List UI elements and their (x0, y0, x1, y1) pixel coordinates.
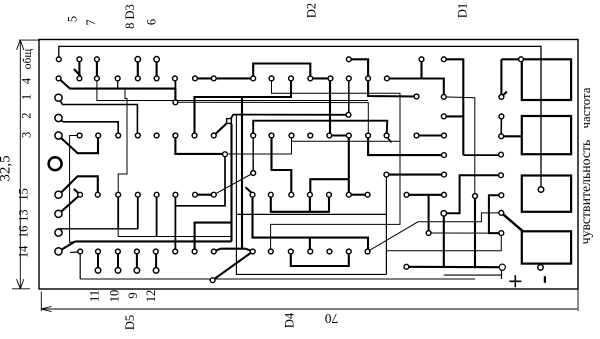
extension line right (577, 289, 579, 311)
wire thin jog line (118, 88, 231, 236)
pad row11 x58.5 (large) (55, 248, 62, 255)
wire net pad(271,78) long thin (271, 78, 400, 251)
wire pad(421.5,59) drop (420, 59, 422, 78)
dimension arrow top (17, 40, 24, 50)
wire plus pad drop (501, 271, 503, 280)
wire link pad(348.8,135)-(348.8,195) (348, 136, 350, 195)
wire pad(137.8,195) down (137, 195, 139, 229)
pad row8 x252.5 (250, 192, 255, 197)
wire kink tick link col79 (74, 69, 81, 76)
svg-text:D2: D2 (305, 3, 319, 18)
pad row11 x367.6 (365, 249, 370, 254)
pad row8 x406.5 (404, 192, 409, 197)
pad row8 x309.9 (308, 192, 313, 197)
extension tick top (19, 39, 40, 41)
wire bottom rail y279 (80, 278, 475, 280)
pad row12 x98 (large) (95, 268, 101, 274)
wire link pad(501,116.4)-(501,136.3) (500, 116, 502, 136)
pad row2 x58.6 (56, 76, 61, 81)
wire net B vertical x242 (241, 97, 243, 249)
dimension arrow left (41, 306, 52, 311)
pad row5 x253.2 (251, 133, 256, 138)
wire thin pad(443.8,97) over to pad(475,196) (444, 97, 475, 195)
pad row8 x175.4 (173, 192, 178, 197)
wire link col330 rows2-5 (329, 78, 331, 135)
wire bar row5 416-444 (417, 134, 445, 136)
pad row1 x96.9 (95, 57, 100, 62)
wire diag pad(58.5,214) to pad(80,194.7) (59, 195, 80, 214)
wire pad(225,154) down-left jog (175, 154, 225, 206)
wire pad(348.8,59) to pad(416.5,96) (349, 59, 417, 96)
wire link col137.8 rows1-2 (137, 59, 139, 78)
pad row5 x416.5 (414, 133, 419, 138)
wire link col79 rows1-2 (78, 59, 80, 78)
wire diag pad(58,195) up (59, 176, 98, 195)
pad row11 x213.8 (211, 249, 216, 254)
pad row5 x118.2 (116, 133, 121, 138)
dimension line 70 horizontal (42, 308, 578, 310)
wire pad(501,175) to pad(444,213) (444, 175, 501, 213)
wire link col96.9 rows1-2 (96, 59, 98, 78)
pad row2 x195 (193, 76, 198, 81)
wire net B bottom (221, 248, 246, 250)
svg-text:15: 15 (16, 188, 30, 201)
pad row5 x58.5 (55, 132, 62, 139)
wire pad(501,195) to pad(501,233) (489, 195, 501, 233)
wire link bottom col98 (97, 252, 99, 271)
pad row10 x58.5 (large) (55, 229, 62, 236)
wire thin pad(291,135) right (292, 136, 401, 142)
wire pad(175.4,135) to pad(225,154) (175, 136, 225, 154)
svg-text:3: 3 (20, 132, 34, 138)
svg-text:7: 7 (84, 19, 98, 25)
wire pad(58,78) to pad(175,102) (59, 78, 176, 101)
pad row11 x348.8 (346, 249, 351, 254)
svg-text:32,5: 32,5 (0, 155, 14, 181)
pad row2 x137.8 (135, 76, 140, 81)
wire pad(386,174) down long (385, 175, 387, 275)
pad row4 x348.8 (346, 112, 351, 117)
pad row7 x501 (499, 173, 504, 178)
pad row2 x156.6 (154, 76, 159, 81)
wire U pad(270.8)-(329) via y211.8 (271, 195, 329, 212)
svg-text:13: 13 (16, 209, 30, 222)
wire link pad(80,251) to pad58 (70, 251, 80, 254)
svg-text:14: 14 (16, 245, 30, 258)
wire y237.6 ext to pad(367.6,251.5) (310, 238, 368, 252)
svg-text:6: 6 (144, 19, 158, 25)
wire net A vertical (230, 124, 232, 242)
pad row12 x136.9 (large) (134, 268, 140, 274)
wire thin y214 long (236, 213, 386, 215)
pad row5 x444 (442, 133, 447, 138)
pad row8 x80.1 (78, 192, 83, 197)
wire thin pad(501,233) down-left (386, 233, 501, 251)
svg-text:70: 70 (325, 311, 339, 326)
wire bar row2 310-330 (310, 77, 330, 79)
pad row8 x501.3 (499, 193, 504, 198)
pad row5 x213.8 (211, 133, 216, 138)
pad row12 x118 (large) (115, 268, 121, 274)
pad row11 x329.5 (327, 249, 332, 254)
pad row8 x137.8 (135, 192, 140, 197)
wire pad(118,195) down (117, 195, 119, 229)
wire net A diag to pad(58,251) (59, 241, 75, 251)
pad row11 x290.8 (288, 249, 293, 254)
pad row9 x443.8 (441, 211, 447, 217)
pad row2 x253.2 (251, 76, 256, 81)
pad row6 x444 (442, 153, 447, 158)
wire thinB pad(96.9,78.4) long right (97, 78, 368, 100)
wire thin diag pad(253,173) to pad(213,195) (214, 173, 253, 195)
pad row3 x175.4 (173, 100, 178, 105)
wire pad(368,135) to pad(444,155) (368, 136, 444, 156)
pad row3 x443.8 (441, 95, 446, 100)
wire bar pad(443.8,116) to x463 (444, 115, 464, 117)
pad row4 x58.5 (large) (55, 114, 62, 121)
wire pad(252.3,196) to pad(310,251) (253, 195, 310, 252)
pad row5 x194.5 (192, 133, 197, 138)
pad row7 x253.2 (251, 171, 256, 176)
pad minus terminal on R4 (538, 265, 544, 271)
wire P-shape 253-310 (253, 64, 310, 79)
wire thick pad(291,78) to pad(194,135) (195, 78, 292, 135)
svg-text:4: 4 (20, 77, 34, 84)
pad row2 x310.3 (308, 76, 313, 81)
pad row2 x330.5 (328, 76, 333, 81)
wire pad(501,59) to pad(521,59) (501, 58, 521, 60)
wire diag tick pad(80,194.7) (74, 189, 80, 195)
svg-text:D4: D4 (283, 312, 297, 328)
wire drop to pad(428.6,233) (428, 195, 430, 232)
wire bar row5 331-348 (331, 134, 349, 136)
pad row8 x329 (327, 192, 332, 197)
svg-text:16: 16 (16, 226, 30, 239)
pad row2 x96.9 (95, 76, 100, 81)
pad row2 x386.9 (385, 76, 390, 81)
wire tick pad(386,135) (387, 137, 392, 143)
pad row2 x291 (289, 76, 294, 81)
pad row5 x368.1 (366, 133, 371, 138)
wire pad(156.6,194.7) drop (156, 195, 158, 237)
wire link bottom col136.9 (136, 252, 138, 271)
wire squarepad to pad(348.5,114.8) (231, 115, 349, 119)
pad row1 x348.8 (346, 57, 351, 62)
pad row2 x174.9 (173, 76, 178, 81)
pad row1 x58.8 (56, 57, 61, 62)
svg-text:чувствительность: чувствительность (578, 140, 593, 245)
dimension line 32,5 vertical (19, 41, 21, 289)
wire med pad(58.5,97.7) to pad(137.8,135.5) (60, 99, 138, 135)
pad row8 x444 (442, 192, 447, 197)
pad row2 x79.4 (77, 76, 82, 81)
wire bar row8 406-444 with drop (407, 194, 445, 196)
pad row9 x58.5 (large) (55, 210, 62, 217)
pad row5 x156.6 (154, 133, 159, 138)
wire plus rail bottom (406, 266, 500, 269)
svg-text:8 D3: 8 D3 (123, 4, 137, 29)
wire net B diag right (246, 249, 253, 252)
wire net B diag left (214, 249, 221, 252)
wire link pad(348.8,78)-(348.8,115) (348, 78, 350, 114)
wire thin x236 vertical (236, 115, 386, 275)
trimmer R3 square (522, 176, 571, 212)
pad row11 x175.2 (173, 249, 178, 254)
svg-text:D5: D5 (123, 315, 137, 330)
trimmer R4 square (522, 231, 571, 263)
wire diag pad(58.5,135.5) to pad(98,135.5) (59, 136, 98, 154)
svg-text:частота: частота (579, 87, 593, 128)
pad row10 x501.3 (499, 231, 504, 236)
svg-text:общ: общ (22, 49, 34, 70)
wire net y229 (59, 229, 138, 231)
pad row1 x156.6 (med) (154, 57, 160, 63)
pad row1 x137.8 (med) (135, 57, 141, 63)
pad row11 x80.2 (78, 249, 83, 254)
wire pad(80,251) drop (79, 252, 81, 279)
wire pad(58,118) to pad(118.2,135.5) (60, 120, 119, 136)
svg-text:5: 5 (66, 16, 80, 22)
mounting hole (49, 157, 62, 170)
wire diag pad(501,213) to square R4 (503, 214, 524, 232)
svg-text:9: 9 (126, 292, 140, 298)
wire pad(501,59) down to pad(501,97) (500, 59, 502, 96)
pad row2 x213.8 (211, 76, 216, 81)
pad row5 x386.6 (384, 133, 389, 138)
wire thin pad(175,102) to pad(368,135) (175, 102, 368, 134)
wire pad(501,136.3) to square R2 (501, 135, 522, 137)
pad col501 y136.3 (499, 134, 504, 139)
pad row7 x386.4 (384, 172, 389, 177)
pad row8 x270.8 (268, 192, 273, 197)
pad square pin1 (227, 119, 232, 124)
pad row11 x98 (96, 249, 101, 254)
board outline frame (39, 40, 578, 290)
pad row8 x213.8 (211, 192, 216, 197)
pad row11 x310.3 (308, 249, 313, 254)
pad row5 x271.5 (269, 133, 274, 138)
pad row8 x195 (193, 192, 198, 197)
pad row11 x155.8 (153, 249, 158, 254)
wire net A bottom rail (75, 240, 231, 242)
wire thin pad(428.6,233) to pad(501,233) (429, 232, 489, 234)
pad x406.4 y266.8 (404, 264, 409, 269)
pad row6 x501 (499, 152, 504, 157)
wire thin pad(225,154) right (225, 141, 292, 154)
pad row5 x175.4 (173, 133, 178, 138)
pad row11 x194.6 (192, 249, 197, 254)
pad row8 x475 (473, 194, 478, 199)
wire pad(310,195) up to link348 (310, 179, 349, 195)
wire riser pad(309.9) to U (309, 195, 311, 212)
wire pad(271,135) to pad(291,195) (272, 136, 292, 195)
pad row2 x271.5 (269, 76, 274, 81)
wire bar row7 386-444 (386, 174, 444, 176)
pad row1 x521 (519, 57, 524, 62)
wire bar row8 348-367 (349, 194, 368, 196)
svg-text:D1: D1 (456, 3, 470, 18)
wire thick top rail y121 (253, 121, 387, 136)
wire diag pad(252.7,251) to pad(212.6,280) (213, 252, 253, 281)
pad small x212.6 y280 (210, 278, 215, 283)
pad row7 x444 (442, 172, 447, 177)
wire pad(117.7,78) drop to y88.4 (117, 78, 119, 88)
wire bar row2 195-253 (195, 77, 253, 79)
wire link bottom col118 (117, 252, 119, 271)
wire link bottom col156.1 (155, 252, 157, 271)
pad row5 x291.5 (289, 133, 294, 138)
pad row3 x416.5 (414, 94, 419, 99)
extension line left (40, 292, 42, 312)
pad row5 x137.8 (135, 133, 140, 138)
wire pad(443.8,59) right-down x463 (444, 59, 464, 155)
pad row8 x156.6 (154, 192, 159, 197)
pad row1 x443.8 (441, 57, 446, 62)
pad row3 x58.5 (large) (55, 94, 62, 101)
pad row4 x443.8 (441, 114, 446, 119)
pad row5 x310.3 (308, 133, 313, 138)
pad row4 x501.4 (499, 114, 504, 119)
wire tick pad(501,97) (502, 92, 507, 97)
wire pad(475,196) down to plus rail (474, 196, 476, 267)
pad row11 x136.9 (135, 249, 140, 254)
pad row2 x117.7 (115, 76, 120, 81)
wire link pad(253,135) to pad(253,173) (252, 136, 254, 174)
wire pad(194.6,251) to net A (195, 223, 232, 252)
trimmer R2 square (522, 116, 571, 154)
pad row8 x348.8 (346, 192, 351, 197)
wire x463 to pad(501,155) (463, 154, 501, 156)
wire link pad(175.4,194.7) to pad(175.4,251.5) (174, 195, 176, 252)
pad row2 x348.8 (346, 76, 351, 81)
svg-text:12: 12 (144, 290, 158, 303)
wire link pad(175.4,78.4)-(175.4,102.3) (174, 78, 176, 102)
pad row8 x367.6 (365, 192, 370, 197)
pad row5 x329.3 (327, 133, 332, 138)
pad row5 x79.6 (77, 133, 82, 138)
pad row11 x117.9 (116, 249, 121, 254)
plus sign (509, 275, 521, 287)
wire diag squarepad to pad(213,135) (214, 123, 227, 136)
pad row8 x118.2 (116, 192, 121, 197)
wire diag stub pad(253,194.7) (246, 187, 253, 193)
wire bar row8 194-213 (195, 194, 214, 196)
minus sign (544, 276, 546, 283)
pad row5 x348.8 (346, 133, 351, 138)
pad row1 x421.5 (419, 57, 424, 62)
pad row10 x428.6 (426, 231, 431, 236)
wire thin net pad(501,213) diag (368, 213, 502, 252)
pad row6 x225 (223, 152, 228, 157)
pad row3 x501.4 (499, 95, 504, 100)
dimension arrow bottom (17, 279, 24, 289)
wire y78 rail 386-443 to pad(443,97) (387, 79, 444, 97)
pad row12 x156.1 (large) (153, 268, 159, 274)
wire pad(444,213) down to plus rail (443, 213, 445, 267)
pad row8 x97.7 (95, 192, 100, 197)
wire thin y275 to plus (444, 274, 502, 276)
svg-text:10: 10 (107, 290, 121, 303)
trimmer R1 square (522, 59, 571, 100)
pad inside R3 (538, 187, 544, 193)
pad row11 x270.8 (268, 249, 273, 254)
svg-text:2: 2 (20, 112, 34, 118)
svg-text:1: 1 (20, 94, 34, 100)
pad row2 x368.1 (366, 76, 371, 81)
wire link col156.6 rows1-2 (156, 59, 158, 78)
extension tick bottom (12, 288, 30, 290)
wire U2 pad(290.8,251)-(348.8,251) (291, 252, 349, 267)
pad row1 x79.4 (77, 57, 82, 62)
wire net top rail to R3 (59, 46, 541, 189)
pad row8 x58.5 (large) (55, 191, 62, 198)
pad row9 x501.3 (499, 211, 504, 216)
pad plus terminal (large) (499, 264, 505, 270)
pad row11 x252.7 (250, 249, 255, 254)
pad row5 x98.2 (96, 133, 101, 138)
pad row8 x291.3 (289, 192, 294, 197)
wire pad(79.6,135) left-down x70 (70, 136, 80, 243)
svg-text:11: 11 (88, 290, 102, 302)
